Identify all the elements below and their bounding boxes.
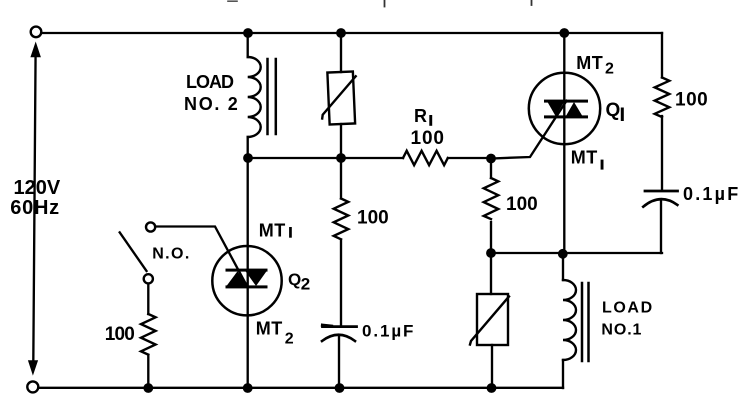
- svg-text:2: 2: [285, 331, 294, 348]
- svg-text:100: 100: [675, 89, 708, 110]
- svg-text:NO.1: NO.1: [601, 322, 642, 339]
- svg-text:100: 100: [357, 207, 389, 228]
- svg-text:MT: MT: [576, 53, 603, 73]
- svg-text:LOAD: LOAD: [602, 299, 654, 316]
- svg-text:Q: Q: [288, 270, 301, 289]
- svg-text:100: 100: [506, 194, 538, 215]
- svg-text:2: 2: [301, 275, 310, 294]
- svg-text:2: 2: [605, 60, 614, 77]
- svg-text:100: 100: [105, 324, 135, 345]
- svg-text:120V: 120V: [14, 177, 61, 199]
- svg-text:100: 100: [411, 128, 445, 149]
- svg-text:MT: MT: [571, 148, 598, 168]
- svg-text:NO. 2: NO. 2: [184, 94, 240, 114]
- svg-text:MT: MT: [259, 221, 286, 241]
- svg-text:Q: Q: [606, 100, 621, 121]
- svg-text:60Hz: 60Hz: [10, 197, 60, 219]
- svg-text:N.O.: N.O.: [152, 245, 191, 262]
- svg-text:MT: MT: [256, 319, 283, 339]
- svg-text:0.1µF: 0.1µF: [362, 322, 415, 341]
- svg-text:0.1µF: 0.1µF: [683, 184, 740, 204]
- svg-text:LOAD: LOAD: [186, 72, 234, 92]
- svg-text:R: R: [414, 106, 427, 126]
